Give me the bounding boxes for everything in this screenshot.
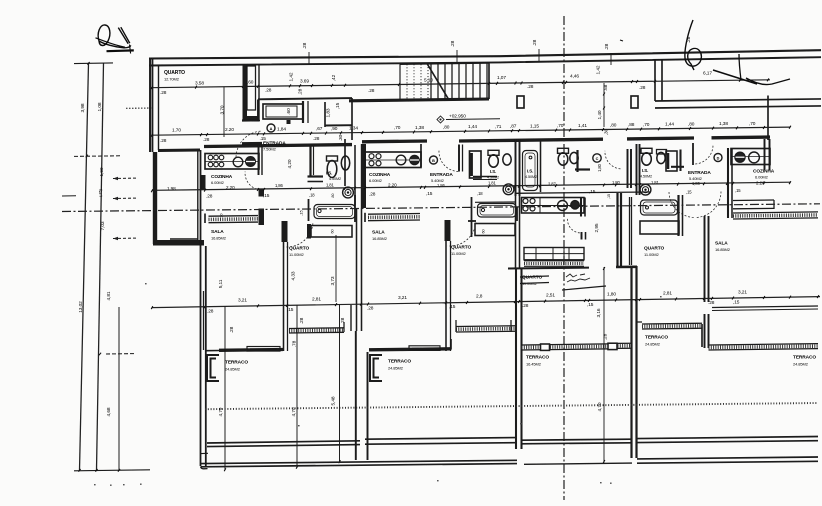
svg-text:2,81: 2,81 [312, 296, 321, 302]
svg-text:TERRACO: TERRACO [388, 359, 411, 365]
svg-text:.28: .28 [522, 303, 529, 309]
svg-text:1,42: 1,42 [289, 72, 295, 81]
svg-text:TERRACO: TERRACO [225, 360, 248, 366]
svg-text:1,08: 1,08 [97, 102, 103, 111]
svg-text:1,84: 1,84 [277, 127, 286, 133]
svg-text:.30: .30 [338, 134, 344, 141]
svg-text:.28: .28 [639, 85, 646, 91]
svg-text:6.00M2: 6.00M2 [755, 174, 769, 179]
svg-text:C: C [596, 157, 599, 161]
svg-text:3,21: 3,21 [398, 295, 407, 301]
svg-text:4,79: 4,79 [218, 407, 224, 416]
svg-text:B: B [432, 159, 435, 163]
svg-text:.28: .28 [708, 300, 715, 306]
svg-text:1,80: 1,80 [597, 163, 602, 172]
svg-text:,15: ,15 [587, 302, 594, 308]
svg-text:.28: .28 [207, 309, 214, 315]
svg-text:1,07: 1,07 [497, 75, 506, 81]
svg-text:11.00M2: 11.00M2 [644, 252, 659, 257]
svg-text:1,86: 1,86 [275, 183, 284, 188]
svg-text:.28: .28 [604, 43, 610, 50]
svg-text:,70: ,70 [643, 122, 650, 128]
svg-text:.28: .28 [532, 39, 538, 46]
svg-text:.80: .80 [331, 194, 335, 199]
svg-text:,42: ,42 [331, 74, 337, 81]
svg-text:TERRACO: TERRACO [526, 355, 549, 361]
svg-text:16.45M2: 16.45M2 [526, 362, 542, 367]
svg-text:I.S.: I.S. [527, 169, 533, 174]
svg-text:5,48: 5,48 [331, 396, 337, 405]
svg-text:.28: .28 [603, 333, 609, 340]
svg-text:2,81: 2,81 [663, 291, 672, 297]
svg-text:4.50M2: 4.50M2 [525, 175, 537, 179]
svg-text:2.20: 2.20 [225, 127, 234, 133]
svg-text:.28: .28 [367, 306, 374, 312]
svg-text:,15: ,15 [335, 102, 341, 109]
svg-text:TERRACO: TERRACO [645, 335, 668, 341]
svg-text:,71: ,71 [495, 124, 502, 130]
svg-text:,67: ,67 [316, 126, 323, 132]
svg-text:3,73: 3,73 [330, 276, 336, 285]
svg-text:11.00M2: 11.00M2 [289, 252, 304, 257]
svg-text:2,8: 2,8 [476, 294, 483, 300]
svg-text:60: 60 [331, 229, 335, 233]
svg-text:24.85M2: 24.85M2 [388, 366, 404, 371]
svg-text:,15: ,15 [449, 304, 456, 310]
svg-text:24.85M2: 24.85M2 [793, 362, 809, 367]
svg-text:4,70: 4,70 [291, 407, 297, 416]
svg-text:1,81: 1,81 [326, 183, 335, 188]
svg-text:QUARTO: QUARTO [164, 70, 185, 76]
svg-text:,15: ,15 [299, 209, 304, 215]
svg-text:4,81: 4,81 [106, 291, 112, 300]
svg-text:4.50M2: 4.50M2 [640, 175, 652, 179]
svg-text:D: D [717, 157, 720, 161]
svg-text:3,21: 3,21 [738, 289, 747, 295]
svg-text:4,20: 4,20 [287, 159, 293, 168]
svg-text:,15: ,15 [263, 193, 270, 199]
svg-text:I.S.: I.S. [326, 171, 332, 176]
svg-text:1,90: 1,90 [99, 167, 105, 176]
svg-text:16.85M2: 16.85M2 [715, 247, 731, 252]
svg-text:.28: .28 [265, 88, 272, 94]
svg-text:1,38: 1,38 [415, 125, 424, 131]
svg-text:60: 60 [482, 229, 486, 233]
svg-text:4.50M2: 4.50M2 [329, 177, 341, 181]
svg-text:.28: .28 [527, 84, 534, 90]
svg-text:.28: .28 [313, 136, 320, 142]
svg-text:7.50M2: 7.50M2 [263, 146, 277, 151]
svg-text:.28: .28 [160, 138, 167, 144]
svg-text:,80: ,80 [688, 122, 695, 128]
svg-text:1,34: 1,34 [349, 126, 358, 132]
svg-text:1,80: 1,80 [607, 292, 616, 298]
svg-text:24.85M2: 24.85M2 [225, 367, 241, 372]
svg-text:6,17: 6,17 [703, 71, 712, 77]
svg-text:.28: .28 [368, 88, 375, 94]
svg-text:.28: .28 [450, 40, 456, 47]
svg-text:,87: ,87 [510, 124, 517, 130]
svg-text:,15: ,15 [589, 189, 596, 195]
svg-text:1,44: 1,44 [665, 122, 674, 128]
svg-text:,18: ,18 [477, 191, 483, 196]
svg-text:6.00M2: 6.00M2 [211, 180, 225, 185]
svg-text:3,98: 3,98 [80, 103, 86, 112]
svg-text:,70: ,70 [557, 123, 564, 129]
svg-text:.28: .28 [340, 317, 346, 324]
svg-text:1,42: 1,42 [596, 65, 602, 74]
svg-text:1,40: 1,40 [597, 110, 603, 119]
svg-text:5.10: 5.10 [424, 78, 433, 84]
svg-text:SALA: SALA [211, 229, 224, 235]
svg-text:24.85M2: 24.85M2 [645, 342, 661, 347]
svg-text:13,02: 13,02 [78, 301, 84, 313]
svg-text:.28: .28 [160, 90, 167, 96]
svg-text:3,21: 3,21 [238, 298, 247, 304]
svg-text:1,81: 1,81 [488, 181, 497, 186]
svg-text:7,03: 7,03 [100, 221, 106, 230]
svg-text:QUARTO: QUARTO [289, 246, 309, 252]
svg-text:,15: ,15 [733, 299, 740, 305]
svg-text:,15: ,15 [426, 191, 433, 197]
svg-text:.28: .28 [229, 326, 235, 333]
svg-text:1,44: 1,44 [468, 124, 477, 130]
svg-text:.28: .28 [206, 193, 213, 199]
svg-text:SALA: SALA [372, 230, 385, 236]
svg-text:.28: .28 [302, 42, 308, 49]
svg-text:1,83: 1,83 [326, 108, 332, 117]
svg-text:1.70: 1.70 [172, 128, 181, 134]
svg-text:SALA: SALA [715, 241, 728, 247]
svg-text:4,33: 4,33 [291, 271, 297, 280]
svg-text:4,68: 4,68 [106, 407, 112, 416]
svg-text:QUARTO: QUARTO [644, 246, 664, 252]
svg-text:,18: ,18 [309, 193, 315, 198]
svg-text:11.00M2: 11.00M2 [451, 251, 466, 256]
svg-text:4,46: 4,46 [570, 74, 579, 80]
svg-text:,90: ,90 [331, 126, 338, 132]
svg-text:+02.950: +02.950 [449, 114, 466, 120]
svg-text:,70: ,70 [394, 125, 401, 131]
svg-text:,15: ,15 [686, 190, 692, 195]
svg-text:,15: ,15 [287, 307, 294, 313]
svg-text:4,70: 4,70 [597, 402, 603, 411]
svg-text:A: A [270, 127, 273, 131]
svg-text:(,75): (,75) [98, 188, 103, 196]
svg-text:.28: .28 [299, 317, 305, 324]
svg-text:,70: ,70 [749, 121, 756, 127]
svg-text:2,95: 2,95 [594, 223, 600, 232]
svg-text:,80: ,80 [443, 124, 450, 130]
svg-text:.28: .28 [203, 137, 210, 143]
svg-text:3.69: 3.69 [300, 79, 309, 85]
svg-text:6.00M2: 6.00M2 [369, 178, 383, 183]
svg-text:QUARTO: QUARTO [522, 275, 542, 281]
svg-text:,88: ,88 [628, 122, 635, 128]
svg-text:4.50M2: 4.50M2 [487, 176, 499, 180]
svg-text:.28: .28 [298, 88, 304, 95]
svg-text:,15: ,15 [735, 188, 741, 193]
svg-text:2,51: 2,51 [546, 293, 555, 299]
svg-text:1,41: 1,41 [578, 123, 587, 129]
svg-text:I.S.: I.S. [642, 168, 648, 173]
svg-text:16.85M2: 16.85M2 [372, 236, 388, 241]
svg-text:.60: .60 [247, 80, 254, 86]
svg-text:1,15: 1,15 [530, 123, 539, 129]
svg-text:3,70: 3,70 [220, 105, 226, 114]
svg-text:,80: ,80 [610, 122, 617, 128]
svg-text:1,38: 1,38 [719, 121, 728, 127]
svg-text:TERRACO: TERRACO [793, 355, 816, 361]
svg-text:.28: .28 [369, 191, 376, 197]
svg-text:I.S.: I.S. [490, 169, 496, 174]
svg-text:16.85M2: 16.85M2 [211, 235, 227, 240]
svg-text:.60: .60 [286, 108, 292, 115]
svg-text:3,16: 3,16 [596, 308, 602, 317]
svg-text:12.70M2: 12.70M2 [164, 77, 180, 82]
svg-text:3.58: 3.58 [195, 81, 204, 87]
svg-text:5,11: 5,11 [218, 279, 224, 288]
svg-text:,15: ,15 [607, 194, 611, 199]
